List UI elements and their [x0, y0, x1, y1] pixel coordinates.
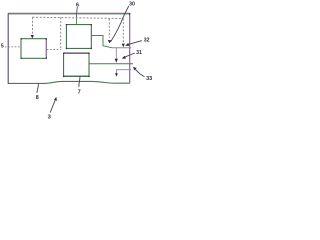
svg-text:5: 5 [1, 44, 4, 50]
svg-text:33: 33 [146, 76, 152, 82]
svg-text:6: 6 [76, 2, 79, 8]
svg-text:30: 30 [129, 1, 135, 7]
svg-text:32: 32 [144, 37, 150, 43]
svg-text:8: 8 [36, 95, 39, 101]
svg-text:7: 7 [78, 90, 81, 96]
svg-text:31: 31 [136, 50, 142, 56]
